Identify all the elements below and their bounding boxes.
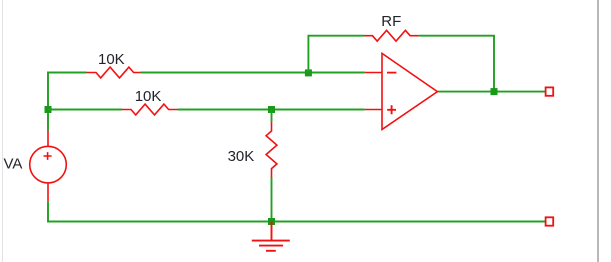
wire: VA bottom to bottom rail [48,202,545,222]
wire: feedback loop left vertical + top to RF [308,36,364,73]
op-amp plus sign [387,105,396,114]
terminal (output, red square) [546,87,554,95]
svg-text:10K: 10K [98,51,125,68]
voltage source VA circle [30,146,67,183]
wire: row1 left corner to R1 [48,73,87,131]
voltage source VA terminal top (red) [47,131,49,147]
svg-text:10K: 10K [135,88,162,105]
op-amp U1 input stub minus (red) [365,72,382,74]
node: feedback tap on row1 [305,69,312,76]
op-amp U1 triangle [382,53,437,129]
wire: RF to right vertical down to output node [419,36,494,92]
op-amp minus sign [387,72,396,74]
voltage source plus sign [44,152,52,160]
node: 30K tap on row2 [268,106,275,113]
ground [252,222,290,251]
wire: 30K bottom lead green [271,178,273,222]
op-amp output stub (red) [437,91,439,93]
svg-text:RF: RF [381,13,401,30]
svg-text:30K: 30K [228,148,255,165]
left window edge line [2,0,4,262]
wire: R1 to op-amp minus (row1) [141,72,365,74]
wire: R2 to op-amp plus (row2) [178,109,365,111]
node: ground junction on bottom rail [268,218,275,225]
wire: 30K top lead green [271,110,273,122]
right window edge line [597,0,599,262]
node: output junction [491,88,498,95]
resistor R1 10K (horizontal, row1) [87,67,141,78]
node: VA tap on row2 [45,106,52,113]
resistor R3 30K (vertical) [266,122,277,178]
svg-text:VA: VA [4,156,23,173]
op-amp U1 input stub plus (red) [365,109,382,111]
terminal (bottom rail, red square) [546,217,554,225]
resistor R2 10K (horizontal, row2) [122,104,178,115]
wire: output to terminal [439,91,546,93]
resistor RF (horizontal, top) [365,30,419,41]
voltage source VA terminal bottom (red) [47,183,49,202]
wire: row2 from VA to R2 [48,109,122,111]
